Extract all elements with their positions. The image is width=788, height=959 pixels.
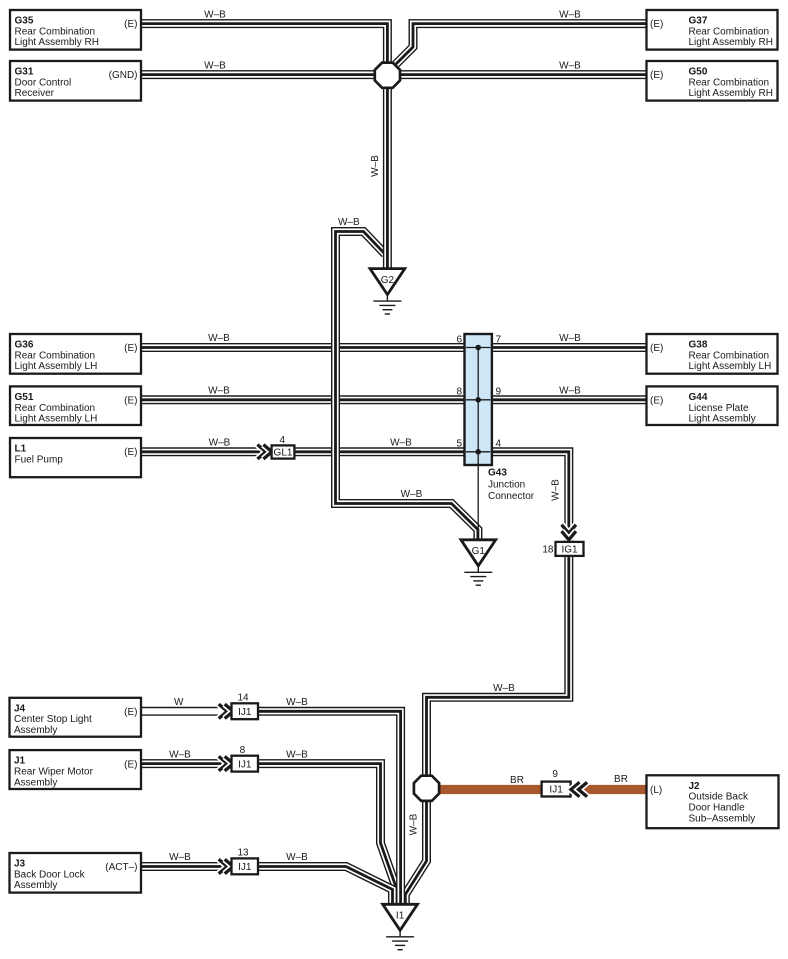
svg-text:Assembly: Assembly bbox=[14, 777, 57, 788]
svg-text:(E): (E) bbox=[650, 19, 663, 30]
ground symbol under G2 bbox=[373, 294, 401, 314]
svg-text:W–B: W–B bbox=[286, 697, 308, 708]
svg-text:J1: J1 bbox=[14, 756, 26, 767]
svg-text:W–B: W–B bbox=[286, 749, 308, 760]
wire W-B from J1 (E) through IJ1 down to I1 ground bbox=[141, 764, 397, 903]
wire W-B branch linking G2 wire to G1 ground bbox=[336, 232, 478, 539]
component box G35 Rear Combination Light Assembly RH bbox=[10, 10, 141, 50]
wire W-B from J3 (ACT-) through IJ1 diagonal to I1 ground bbox=[141, 867, 393, 904]
svg-text:IJ1: IJ1 bbox=[549, 785, 563, 796]
svg-text:BR: BR bbox=[510, 775, 524, 786]
svg-text:Rear Combination: Rear Combination bbox=[15, 403, 96, 414]
svg-text:I1: I1 bbox=[396, 911, 405, 922]
connector chevron before IG1 bbox=[562, 525, 576, 540]
component box G38 Rear Combination Light Assembly LH bbox=[647, 334, 778, 374]
svg-text:4: 4 bbox=[496, 439, 502, 450]
svg-text:W–B: W–B bbox=[559, 333, 581, 344]
component box J3 Back Door Lock Assembly bbox=[10, 853, 142, 893]
svg-text:Rear Combination: Rear Combination bbox=[15, 26, 96, 37]
connector IJ1 pin 8 bbox=[232, 756, 259, 772]
svg-text:9: 9 bbox=[552, 769, 558, 780]
svg-text:Assembly: Assembly bbox=[14, 725, 57, 736]
connector chevron before GL1 bbox=[257, 445, 272, 459]
svg-text:(E): (E) bbox=[650, 343, 663, 354]
svg-text:(E): (E) bbox=[124, 19, 137, 30]
svg-text:(L): (L) bbox=[650, 785, 662, 796]
svg-text:Outside Back: Outside Back bbox=[689, 792, 749, 803]
svg-text:8: 8 bbox=[240, 745, 246, 756]
label G43 Junction Connector bbox=[488, 467, 535, 502]
svg-text:IJ1: IJ1 bbox=[238, 759, 252, 770]
component box G44 License Plate Light Assembly bbox=[647, 386, 778, 425]
wire W-B from G35 (E) to junction node, turning down bbox=[141, 24, 387, 63]
connector IJ1 pin 13 bbox=[232, 858, 259, 874]
connector GL1 bbox=[272, 445, 295, 458]
junction node (octagon) bottom, body ground splice bbox=[414, 776, 439, 801]
svg-text:Light Assembly: Light Assembly bbox=[689, 414, 756, 425]
svg-text:W–B: W–B bbox=[169, 749, 191, 760]
svg-text:(E): (E) bbox=[650, 396, 663, 407]
svg-text:G37: G37 bbox=[689, 16, 708, 27]
junction node (octagon) top, G35/G37/G31/G50 ground splice bbox=[375, 63, 400, 88]
svg-text:Rear Combination: Rear Combination bbox=[689, 350, 770, 361]
wire W from J4 (E) to connector IJ1 bbox=[141, 707, 232, 716]
connector IJ1 pin 9 (brown wire) bbox=[542, 782, 571, 797]
wire W-B row from L1 (E) through GL1 to G43 pin 5 bbox=[141, 447, 465, 456]
svg-text:8: 8 bbox=[456, 387, 462, 398]
svg-text:G43: G43 bbox=[488, 467, 507, 478]
wire W-B from junction node down to I1 ground bbox=[405, 800, 426, 903]
svg-text:Junction: Junction bbox=[488, 479, 525, 490]
svg-text:(E): (E) bbox=[124, 447, 137, 458]
svg-text:G1: G1 bbox=[472, 546, 486, 557]
connector IJ1 pin 14 bbox=[232, 703, 259, 719]
svg-text:W–B: W–B bbox=[208, 333, 230, 344]
svg-text:(E): (E) bbox=[650, 70, 663, 81]
svg-text:G51: G51 bbox=[15, 392, 34, 403]
svg-text:W–B: W–B bbox=[204, 60, 226, 71]
svg-text:5: 5 bbox=[456, 439, 462, 450]
svg-text:BR: BR bbox=[614, 774, 628, 785]
connector chevron before IJ1 (J4) bbox=[219, 704, 234, 718]
wire BR from junction node to IJ1 to J2 (L) bbox=[439, 785, 647, 794]
svg-text:(E): (E) bbox=[124, 759, 137, 770]
svg-text:G44: G44 bbox=[689, 392, 708, 403]
svg-text:18: 18 bbox=[542, 545, 554, 556]
svg-text:IJ1: IJ1 bbox=[238, 707, 252, 718]
component box G50 Rear Combination Light Assembly RH bbox=[647, 61, 778, 101]
svg-text:Light Assembly LH: Light Assembly LH bbox=[689, 361, 772, 372]
svg-text:G36: G36 bbox=[15, 340, 34, 351]
connector chevron after IJ1 (J2) bbox=[571, 782, 587, 796]
svg-text:Light Assembly LH: Light Assembly LH bbox=[15, 361, 98, 372]
ground triangle G2 bbox=[370, 269, 405, 295]
junction connector G43 (blue) with internal bus bbox=[465, 334, 492, 539]
svg-text:W–B: W–B bbox=[493, 683, 515, 694]
svg-text:Connector: Connector bbox=[488, 491, 535, 502]
svg-text:Light Assembly RH: Light Assembly RH bbox=[689, 88, 773, 99]
svg-text:Door Control: Door Control bbox=[15, 77, 72, 88]
svg-text:W–B: W–B bbox=[559, 9, 581, 20]
svg-text:W–B: W–B bbox=[208, 386, 230, 397]
ground triangle G1 bbox=[461, 540, 496, 566]
svg-text:IJ1: IJ1 bbox=[238, 862, 252, 873]
wire W-B from IJ1 to I1 ground (J4 branch) bbox=[257, 711, 401, 903]
svg-text:Rear Combination: Rear Combination bbox=[689, 77, 770, 88]
wire W-B from G43 pin 7 to G38 (E) bbox=[492, 343, 647, 352]
svg-text:Rear Combination: Rear Combination bbox=[15, 350, 96, 361]
svg-text:Rear Wiper Motor: Rear Wiper Motor bbox=[14, 767, 94, 778]
svg-text:W–B: W–B bbox=[370, 155, 381, 177]
svg-text:G38: G38 bbox=[689, 340, 708, 351]
svg-text:G2: G2 bbox=[381, 275, 395, 286]
component box G51 Rear Combination Light Assembly LH bbox=[10, 386, 141, 425]
svg-text:7: 7 bbox=[496, 334, 502, 345]
svg-text:6: 6 bbox=[456, 334, 462, 345]
svg-text:W–B: W–B bbox=[338, 217, 360, 228]
svg-text:G50: G50 bbox=[689, 67, 708, 78]
component box J1 Rear Wiper Motor Assembly bbox=[10, 750, 142, 789]
svg-text:Receiver: Receiver bbox=[15, 88, 55, 99]
svg-text:GL1: GL1 bbox=[274, 448, 293, 459]
svg-text:Center Stop Light: Center Stop Light bbox=[14, 714, 92, 725]
svg-text:(E): (E) bbox=[124, 707, 137, 718]
svg-text:(ACT–): (ACT–) bbox=[105, 862, 137, 873]
svg-text:L1: L1 bbox=[15, 444, 27, 455]
svg-text:Light Assembly RH: Light Assembly RH bbox=[689, 37, 773, 48]
svg-text:Light Assembly RH: Light Assembly RH bbox=[15, 37, 99, 48]
svg-text:J3: J3 bbox=[14, 859, 26, 870]
svg-text:G35: G35 bbox=[15, 16, 34, 27]
svg-text:(E): (E) bbox=[124, 396, 137, 407]
svg-text:W–B: W–B bbox=[204, 9, 226, 20]
svg-text:14: 14 bbox=[237, 693, 249, 704]
svg-text:9: 9 bbox=[496, 387, 502, 398]
wire W-B row from G51 (E) to G43 pin 8 bbox=[141, 395, 465, 404]
svg-text:Door Handle: Door Handle bbox=[689, 803, 746, 814]
svg-text:Sub–Assembly: Sub–Assembly bbox=[689, 813, 756, 824]
svg-text:IG1: IG1 bbox=[561, 545, 578, 556]
wire W-B from junction node down to ground G2 bbox=[383, 86, 392, 268]
svg-text:Rear Combination: Rear Combination bbox=[689, 26, 770, 37]
connector chevron before IJ1 (J3) bbox=[219, 859, 234, 873]
svg-text:Fuel Pump: Fuel Pump bbox=[15, 454, 64, 465]
wire W-B from G43 pin 9 to G44 (E) bbox=[492, 395, 647, 404]
wire W-B from G37 (E) left then down and diagonal into junction node bbox=[396, 24, 647, 64]
svg-text:W–B: W–B bbox=[390, 438, 412, 449]
svg-text:W–B: W–B bbox=[209, 438, 231, 449]
component box L1 Fuel Pump bbox=[10, 438, 141, 477]
svg-text:W–B: W–B bbox=[559, 60, 581, 71]
wire W-B from G31 (GND) to junction node left side bbox=[141, 70, 378, 79]
svg-text:G31: G31 bbox=[15, 67, 34, 78]
component box J4 Center Stop Light Assembly bbox=[10, 698, 142, 737]
svg-text:W–B: W–B bbox=[409, 813, 420, 835]
wire W-B from G50 (E) to junction node right side bbox=[400, 70, 647, 79]
svg-text:Assembly: Assembly bbox=[14, 880, 57, 891]
svg-text:4: 4 bbox=[280, 435, 286, 446]
svg-text:(E): (E) bbox=[124, 343, 137, 354]
svg-text:J2: J2 bbox=[689, 781, 701, 792]
svg-text:13: 13 bbox=[237, 848, 249, 859]
wire W-B from G43 pin 4 down through IG1 then left and down to junction node bbox=[427, 452, 569, 776]
svg-text:License Plate: License Plate bbox=[689, 403, 749, 414]
svg-text:W–B: W–B bbox=[401, 489, 423, 500]
svg-text:W–B: W–B bbox=[559, 386, 581, 397]
wire W-B row from G36 (E) to G43 pin 6 bbox=[141, 343, 465, 352]
connector chevron before IJ1 (J1) bbox=[219, 756, 234, 770]
ground symbol under G1 bbox=[464, 565, 492, 585]
svg-text:(GND): (GND) bbox=[109, 70, 138, 81]
svg-text:Light Assembly LH: Light Assembly LH bbox=[15, 414, 98, 425]
component box J2 Outside Back Door Handle Sub-Assembly bbox=[647, 775, 779, 828]
svg-text:Back Door Lock: Back Door Lock bbox=[14, 869, 86, 880]
svg-text:W: W bbox=[174, 697, 184, 708]
ground triangle I1 bbox=[383, 904, 418, 930]
ground symbol under I1 bbox=[386, 929, 414, 949]
svg-text:W–B: W–B bbox=[286, 852, 308, 863]
component box G36 Rear Combination Light Assembly LH bbox=[10, 334, 141, 374]
svg-text:W–B: W–B bbox=[169, 852, 191, 863]
component box G31 Door Control Receiver bbox=[10, 61, 141, 101]
connector IG1 bbox=[556, 542, 584, 556]
svg-text:W–B: W–B bbox=[551, 479, 562, 501]
component box G37 Rear Combination Light Assembly RH bbox=[647, 10, 778, 50]
svg-text:J4: J4 bbox=[14, 703, 26, 714]
